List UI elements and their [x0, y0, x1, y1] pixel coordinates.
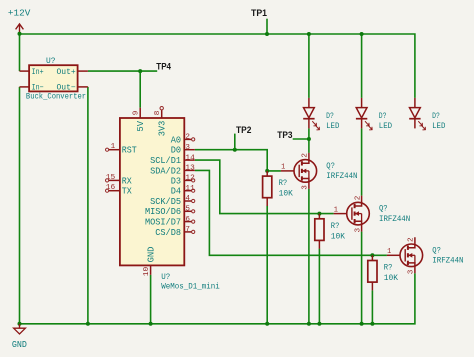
resistor R3 10K: [368, 255, 377, 290]
junction R1 top / Q1 gate: [265, 169, 269, 173]
wire IC GND pin to rail: [150, 275, 152, 324]
svg-text:3V3: 3V3: [157, 121, 167, 137]
svg-text:7: 7: [185, 226, 190, 234]
svg-text:5V: 5V: [136, 120, 146, 131]
svg-text:1: 1: [111, 143, 116, 151]
buck converter U1 body: [29, 65, 78, 91]
svg-text:D?: D?: [432, 111, 440, 121]
svg-text:14: 14: [185, 154, 195, 162]
pin 6 MOSI/D7: [184, 220, 194, 223]
svg-text:15: 15: [106, 174, 116, 182]
wire SDA/D2 to Q3 gate: [195, 170, 387, 255]
svg-text:Q?: Q?: [432, 245, 441, 255]
pin 16 TX: [106, 189, 120, 192]
svg-text:8: 8: [154, 110, 162, 115]
svg-text:In−: In−: [32, 84, 44, 93]
LED D3: [409, 98, 425, 130]
svg-text:WeMos_D1_mini: WeMos_D1_mini: [161, 282, 220, 292]
transistor Q2 IRFZ44N: [334, 196, 370, 232]
svg-text:1: 1: [387, 248, 392, 256]
svg-text:3: 3: [408, 269, 416, 274]
pin 12 D3: [184, 179, 194, 182]
svg-text:10K: 10K: [331, 231, 346, 241]
svg-text:IRFZ44N: IRFZ44N: [432, 256, 463, 266]
svg-text:1: 1: [281, 164, 286, 172]
svg-text:+12V: +12V: [8, 8, 31, 18]
svg-text:TP4: TP4: [156, 62, 171, 72]
svg-text:IRFZ44N: IRFZ44N: [326, 171, 357, 181]
svg-text:U?: U?: [161, 272, 170, 282]
wire Out+ down to 5V pin: [139, 71, 141, 108]
junction LED2 column: [360, 32, 364, 36]
svg-text:SDA/D2: SDA/D2: [150, 166, 181, 176]
junction TP1 on rail: [265, 32, 269, 36]
pin 3 D0: [184, 149, 195, 151]
junction +12V node: [18, 32, 22, 36]
svg-text:LED: LED: [432, 121, 445, 131]
resistor R1 10K: [263, 171, 272, 206]
wire Q2 source to rail: [361, 232, 363, 324]
pin 13 SDA/D2: [184, 169, 195, 171]
svg-text:SCK/D5: SCK/D5: [150, 197, 181, 207]
pin 7 CS/D8: [184, 230, 194, 233]
svg-text:TP2: TP2: [236, 125, 251, 135]
svg-text:CS/D8: CS/D8: [155, 228, 181, 238]
wire bottom GND rail: [20, 273, 415, 324]
svg-text:12: 12: [185, 175, 195, 183]
pin 10 GND: [150, 265, 152, 274]
buck pin In-: [20, 86, 30, 88]
wire R2 bottom to rail: [318, 249, 320, 324]
svg-text:Out−: Out−: [56, 84, 75, 93]
svg-text:10: 10: [143, 266, 151, 276]
svg-text:5: 5: [185, 206, 190, 214]
junction R2 on rail: [317, 322, 321, 326]
wire Buck Out- to GND rail: [87, 87, 89, 324]
svg-text:In+: In+: [32, 68, 44, 77]
svg-text:LED: LED: [326, 121, 339, 131]
svg-text:Q?: Q?: [326, 161, 335, 171]
wire SCL/D1 to Q2 gate: [195, 160, 334, 214]
pin 14 SCL/D1: [184, 159, 195, 161]
svg-text:4: 4: [185, 195, 190, 203]
svg-text:D3: D3: [171, 176, 181, 186]
buck pin Out+: [78, 70, 88, 72]
junction LED1 column: [307, 32, 311, 36]
wire top +12V rail: [20, 34, 415, 98]
ground symbol: [14, 324, 26, 334]
resistor R2 10K: [315, 214, 324, 249]
junction R2 top / Q2 gate: [317, 212, 321, 216]
LED D1: [303, 98, 319, 130]
junction Q2 source on rail: [360, 322, 364, 326]
junction R3 on rail: [370, 322, 374, 326]
svg-text:10K: 10K: [384, 273, 399, 283]
junction Out- on rail: [86, 322, 90, 326]
svg-text:D0: D0: [171, 146, 181, 156]
transistor Q3 IRFZ44N: [387, 237, 423, 273]
svg-text:6: 6: [185, 216, 190, 224]
buck pin In+: [20, 70, 30, 72]
wire TP1 stub: [266, 19, 268, 34]
WeMos D1 mini body: [120, 118, 184, 265]
transistor Q1 IRFZ44N: [281, 153, 317, 189]
wire R3 bottom to rail: [371, 290, 373, 323]
svg-text:2: 2: [302, 153, 310, 158]
svg-text:D?: D?: [326, 111, 334, 121]
junction TP4 node: [138, 69, 142, 73]
junction TP2 on D0 wire: [233, 148, 237, 152]
wire LED1 cathode to Q1 drain: [308, 128, 310, 153]
junction R1 on rail: [265, 322, 269, 326]
wire +12V to Buck In+: [19, 34, 21, 71]
junction GND symbol node: [18, 322, 22, 326]
pin 9 5V: [139, 108, 141, 118]
junction R3 top / Q3 gate: [370, 253, 374, 257]
junction IC GND on rail: [149, 322, 153, 326]
pin 4 SCK/D5: [184, 199, 194, 202]
svg-text:11: 11: [185, 185, 195, 193]
svg-text:D?: D?: [379, 111, 387, 121]
wire LED2 cathode to Q2 drain: [361, 128, 363, 195]
svg-text:IRFZ44N: IRFZ44N: [379, 214, 410, 224]
wire Buck Out+ to TP4: [88, 70, 157, 72]
svg-text:A0: A0: [171, 135, 181, 145]
svg-text:TP3: TP3: [277, 130, 292, 140]
pin 8 3V3: [160, 107, 163, 119]
svg-text:Buck_Converter: Buck_Converter: [26, 92, 86, 102]
junction TP3 / LED1 node: [307, 137, 311, 141]
svg-text:3: 3: [354, 227, 362, 232]
svg-text:10K: 10K: [279, 189, 294, 199]
svg-text:Q?: Q?: [379, 204, 388, 214]
svg-text:MOSI/D7: MOSI/D7: [145, 218, 181, 228]
pin 11 D4: [184, 189, 194, 192]
svg-text:3: 3: [302, 185, 310, 190]
pin 15 RX: [106, 179, 120, 182]
svg-text:9: 9: [133, 110, 141, 115]
svg-text:1: 1: [334, 206, 339, 214]
pin 2 A0: [184, 138, 194, 141]
wire R1 bottom to rail: [266, 206, 268, 324]
svg-text:R?: R?: [279, 178, 288, 188]
svg-text:TP1: TP1: [251, 8, 267, 18]
wire rail to LED2 anode: [361, 34, 363, 98]
svg-text:LED: LED: [379, 121, 392, 131]
wire TP2 stub: [234, 134, 236, 150]
wire Buck In- to GND rail: [19, 87, 21, 324]
svg-text:TX: TX: [122, 187, 133, 197]
buck pin Out-: [78, 86, 88, 88]
svg-text:RX: RX: [122, 176, 133, 186]
svg-text:U?: U?: [46, 56, 56, 66]
svg-text:D4: D4: [171, 187, 181, 197]
svg-text:R?: R?: [384, 263, 393, 273]
wire TP3 stub: [293, 138, 309, 140]
svg-text:3: 3: [185, 144, 190, 152]
wire Q1 source to rail: [308, 189, 310, 324]
svg-text:2: 2: [408, 237, 416, 242]
pin 1 RST: [106, 148, 120, 151]
svg-text:Out+: Out+: [56, 68, 75, 77]
svg-text:GND: GND: [12, 340, 27, 350]
junction Q1 source on rail: [307, 322, 311, 326]
wire D0 to Q1 gate: [195, 150, 281, 171]
pin 5 MISO/D6: [184, 210, 194, 213]
svg-text:2: 2: [354, 195, 362, 200]
svg-text:GND: GND: [146, 247, 156, 263]
svg-text:16: 16: [106, 184, 116, 192]
svg-text:13: 13: [185, 165, 195, 173]
svg-text:SCL/D1: SCL/D1: [150, 156, 181, 166]
svg-text:R?: R?: [331, 221, 340, 231]
power flag +12V: [16, 24, 24, 34]
svg-text:RST: RST: [122, 146, 137, 156]
svg-text:MISO/D6: MISO/D6: [145, 207, 181, 217]
LED D2: [356, 98, 372, 130]
wire rail to LED1 anode: [308, 34, 310, 98]
svg-text:2: 2: [185, 134, 190, 142]
